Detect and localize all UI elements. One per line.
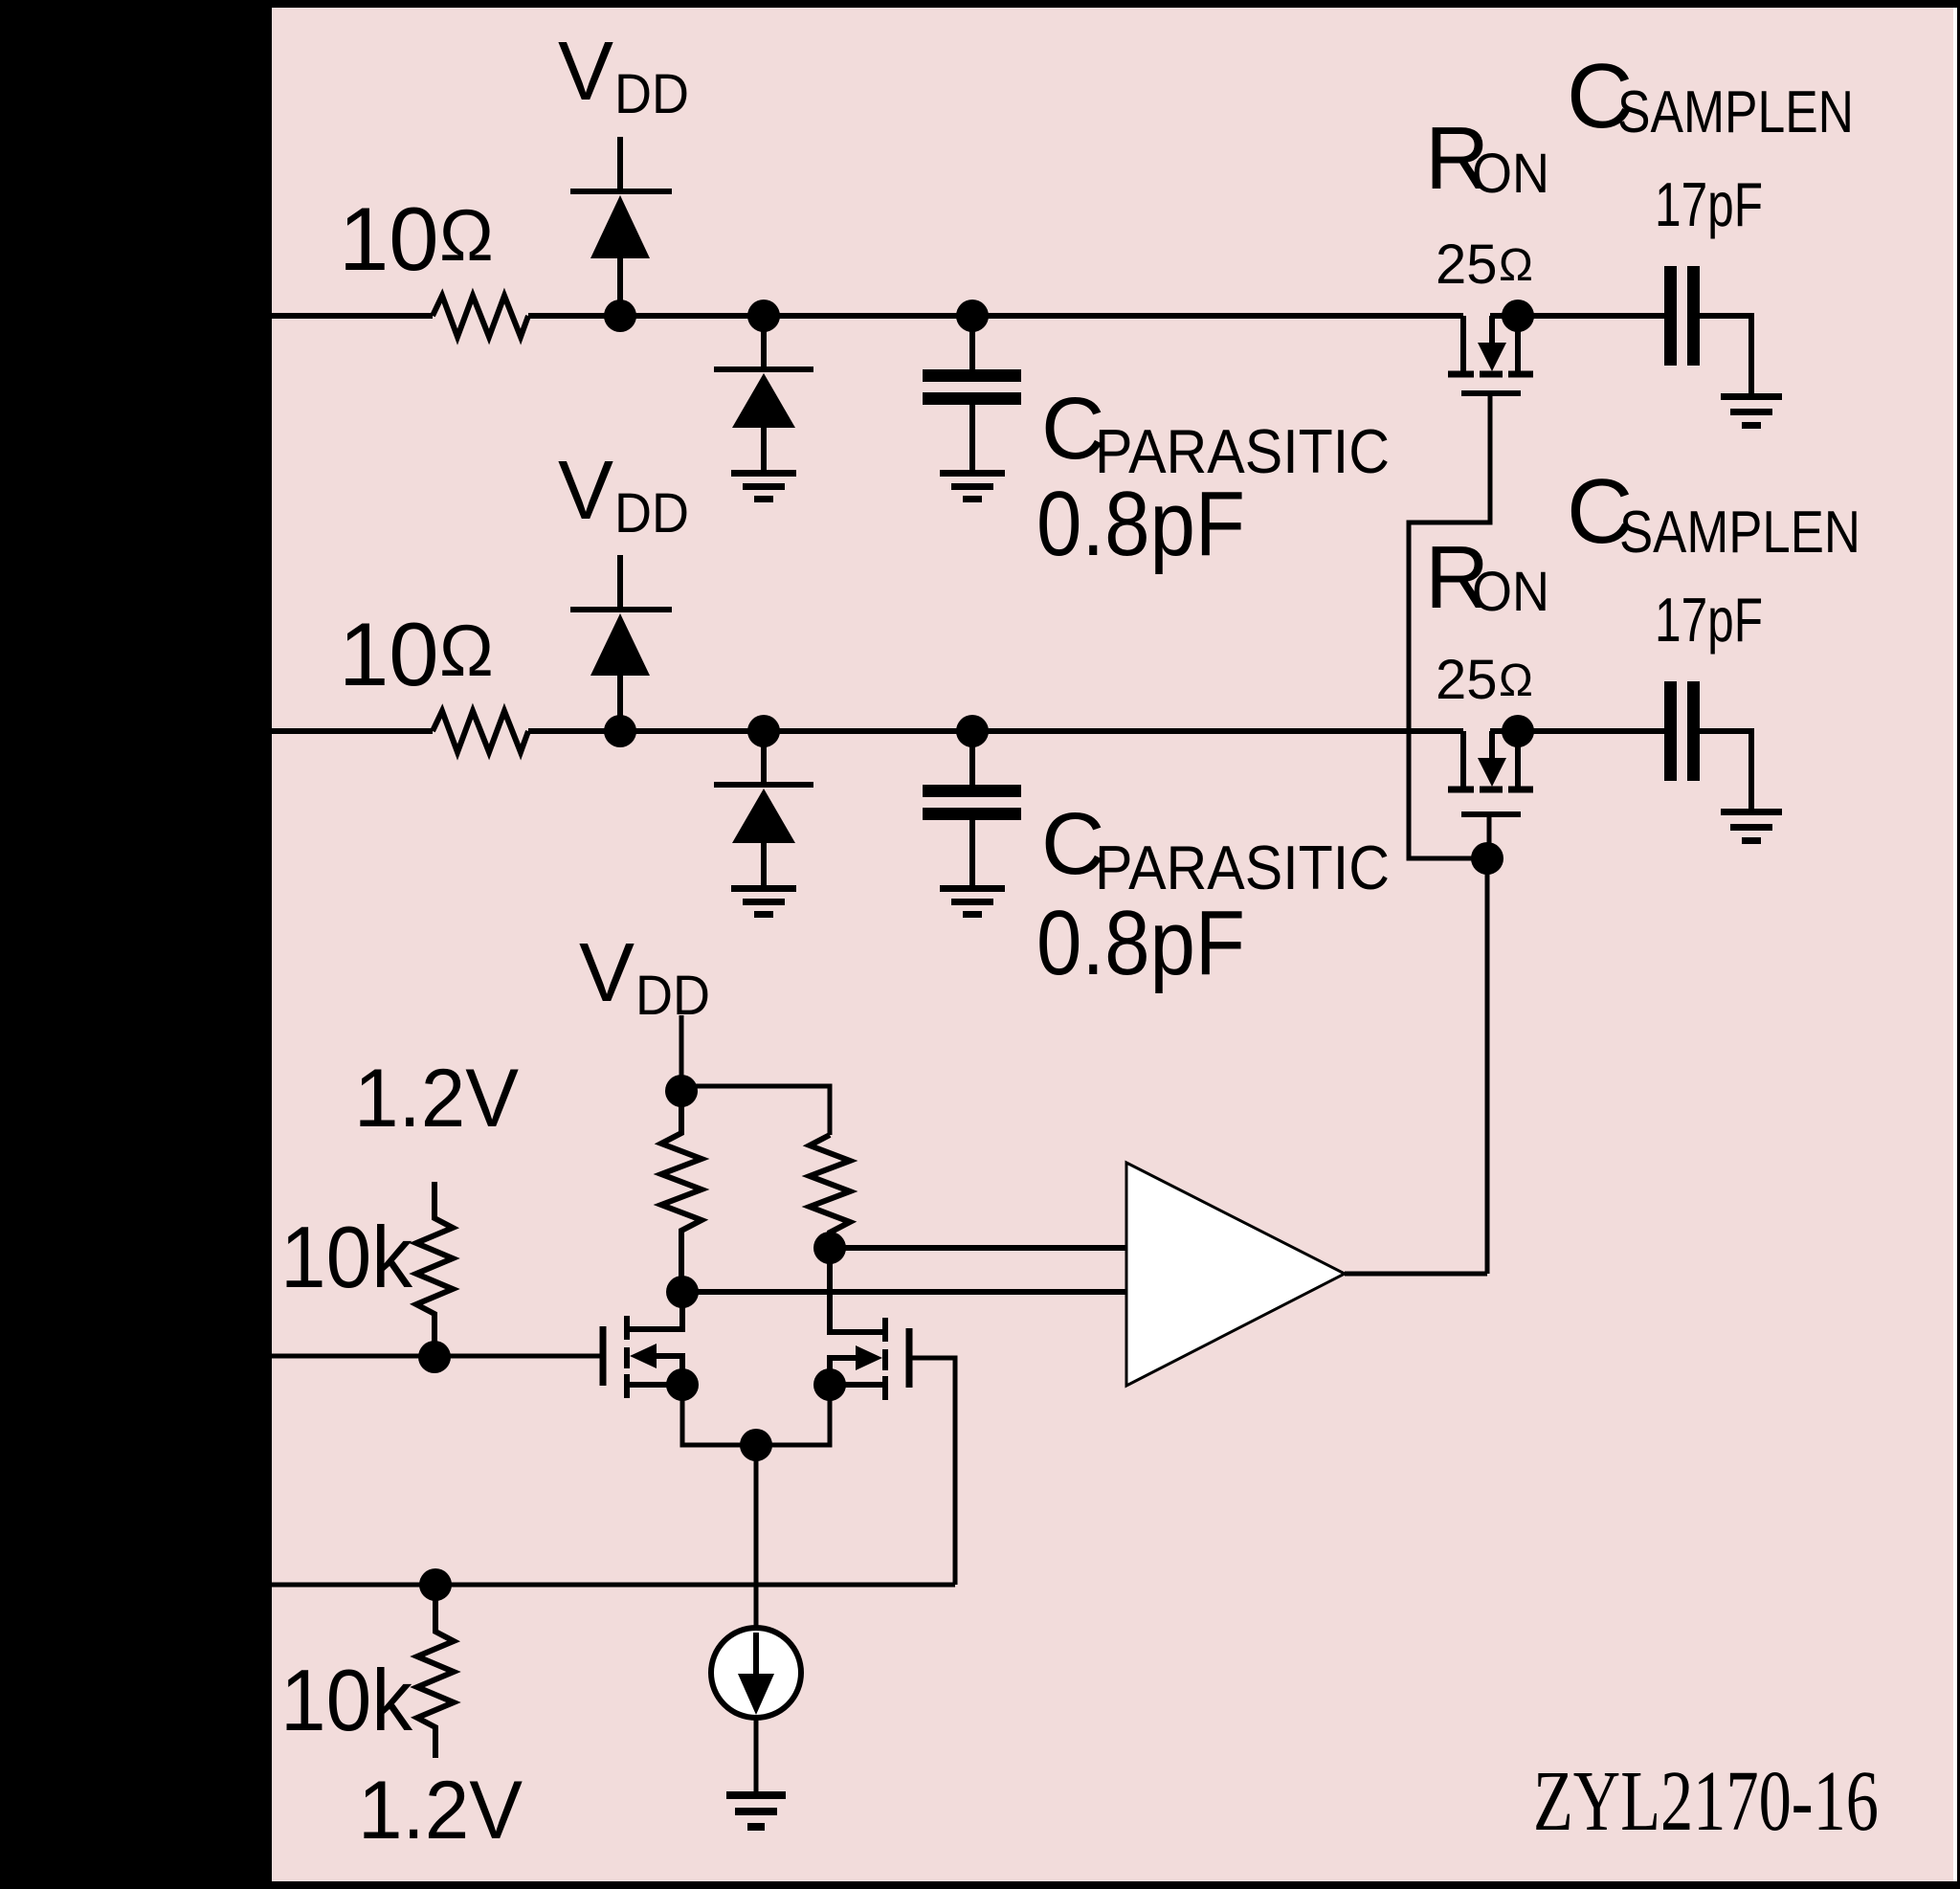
node dot gate1 / 10k — [418, 1341, 451, 1373]
wire IN2 right segment — [528, 728, 1463, 734]
node dot wire1/D2 — [747, 300, 780, 332]
wire amp output — [1345, 1272, 1487, 1277]
wire IN2 left segment — [272, 728, 433, 734]
svg-text:10: 10 — [339, 189, 439, 289]
diode D1 to VDD row1 — [617, 137, 623, 189]
op-amp comparator triangle — [1126, 1163, 1345, 1386]
sampling switch MOSFET row2 — [1460, 731, 1466, 787]
gate wire input 1 — [272, 1354, 603, 1359]
svg-text:V: V — [558, 444, 613, 537]
wire IN1 right segment — [528, 313, 1463, 319]
svg-text:DD: DD — [614, 63, 689, 125]
diode D4 to ground row2 — [761, 731, 767, 783]
node dot switch1 output — [1502, 300, 1534, 332]
gate wire input 2 — [272, 1583, 955, 1588]
capacitor C_PARASITIC row2 — [969, 731, 975, 785]
svg-text:25: 25 — [1436, 233, 1498, 296]
node dot gate2 / 10k — [419, 1568, 452, 1601]
svg-text:DD: DD — [635, 965, 710, 1027]
node dot tail — [740, 1429, 772, 1461]
resistor 10k upper — [416, 1182, 453, 1357]
ground below C2 — [940, 885, 1005, 918]
capacitor C_PARASITIC row1 — [969, 316, 975, 369]
ground below D4 — [731, 885, 796, 918]
node dot VDD — [665, 1075, 698, 1107]
node dot gates junction — [1471, 842, 1503, 875]
ground below C1 — [940, 470, 1005, 502]
sampling switch MOSFET row1 — [1460, 316, 1466, 371]
svg-text:1.2V: 1.2V — [354, 1053, 519, 1145]
gate wire of switch row1 — [1409, 396, 1490, 858]
diode D2 to ground row1 — [761, 316, 767, 367]
node dot wire2/D3 — [604, 715, 636, 747]
VDD lead — [679, 1015, 684, 1091]
resistor right load — [810, 1135, 850, 1248]
wire amp lower input — [682, 1289, 1126, 1295]
gate wire of switch row2 — [1487, 816, 1492, 858]
svg-text:10k: 10k — [280, 1210, 412, 1306]
current source — [711, 1628, 801, 1718]
svg-text:17pF: 17pF — [1655, 585, 1763, 655]
capacitor C_SAMPLEN row1 — [1664, 266, 1677, 366]
gate wire Q2 loop — [909, 1358, 955, 1585]
transistor Q1 (left of diff pair) — [600, 1326, 607, 1386]
node dot wire2/C2 — [956, 715, 989, 747]
svg-text:DD: DD — [614, 482, 689, 544]
svg-text:SAMPLEN: SAMPLEN — [1617, 79, 1854, 145]
wire Q2 source to tail — [756, 1385, 830, 1445]
svg-text:SAMPLEN: SAMPLEN — [1619, 500, 1860, 566]
node dot wire2/D4 — [747, 715, 780, 747]
diode D3 to VDD row2 — [617, 555, 623, 607]
resistor 10k lower — [417, 1585, 454, 1758]
svg-text:Ω: Ω — [439, 611, 494, 692]
node dot wire1/D1 — [604, 300, 636, 332]
wire amp upper input — [830, 1245, 1126, 1251]
wire VDD to right branch — [681, 1086, 830, 1135]
node dot Q1 source — [666, 1368, 699, 1401]
svg-text:10k: 10k — [280, 1653, 412, 1749]
svg-text:Ω: Ω — [1499, 656, 1533, 706]
node dot left load / amp lower input — [666, 1276, 699, 1308]
white edge strip — [1953, 8, 1957, 1881]
svg-text:0.8pF: 0.8pF — [1036, 892, 1245, 994]
node dot wire1/C1 — [956, 300, 989, 332]
wire junction to amp output — [1485, 858, 1490, 1274]
node dot right load / amp upper input — [813, 1232, 846, 1264]
svg-text:0.8pF: 0.8pF — [1036, 473, 1245, 575]
node dot switch2 output — [1502, 715, 1534, 747]
svg-text:ON: ON — [1472, 561, 1549, 623]
wire IN1 left segment — [272, 313, 433, 319]
ground below current source — [726, 1791, 786, 1831]
svg-text:Ω: Ω — [439, 195, 494, 277]
svg-text:Ω: Ω — [1499, 240, 1533, 291]
svg-text:17pF: 17pF — [1655, 169, 1763, 239]
transistor Q2 (right of diff pair) — [906, 1328, 913, 1388]
svg-text:ZYL2170-16: ZYL2170-16 — [1533, 1754, 1879, 1849]
svg-text:V: V — [579, 926, 635, 1019]
resistor 10 ohm row1 — [433, 296, 528, 337]
svg-text:25: 25 — [1436, 649, 1498, 711]
ground below C_SAMPLEN row2 — [1721, 809, 1782, 844]
ground below D2 — [731, 470, 796, 502]
svg-text:1.2V: 1.2V — [358, 1765, 523, 1856]
ground below C_SAMPLEN row1 — [1721, 393, 1782, 429]
wire tail to current source — [754, 1445, 759, 1628]
capacitor C_SAMPLEN row2 — [1664, 681, 1677, 781]
resistor 10 ohm row2 — [433, 711, 528, 752]
svg-text:V: V — [558, 25, 613, 118]
svg-text:ON: ON — [1472, 143, 1549, 205]
svg-text:10: 10 — [339, 604, 439, 704]
resistor left load — [661, 1091, 702, 1292]
wire Q1 source to tail — [682, 1385, 756, 1445]
node dot Q2 source — [813, 1368, 846, 1401]
